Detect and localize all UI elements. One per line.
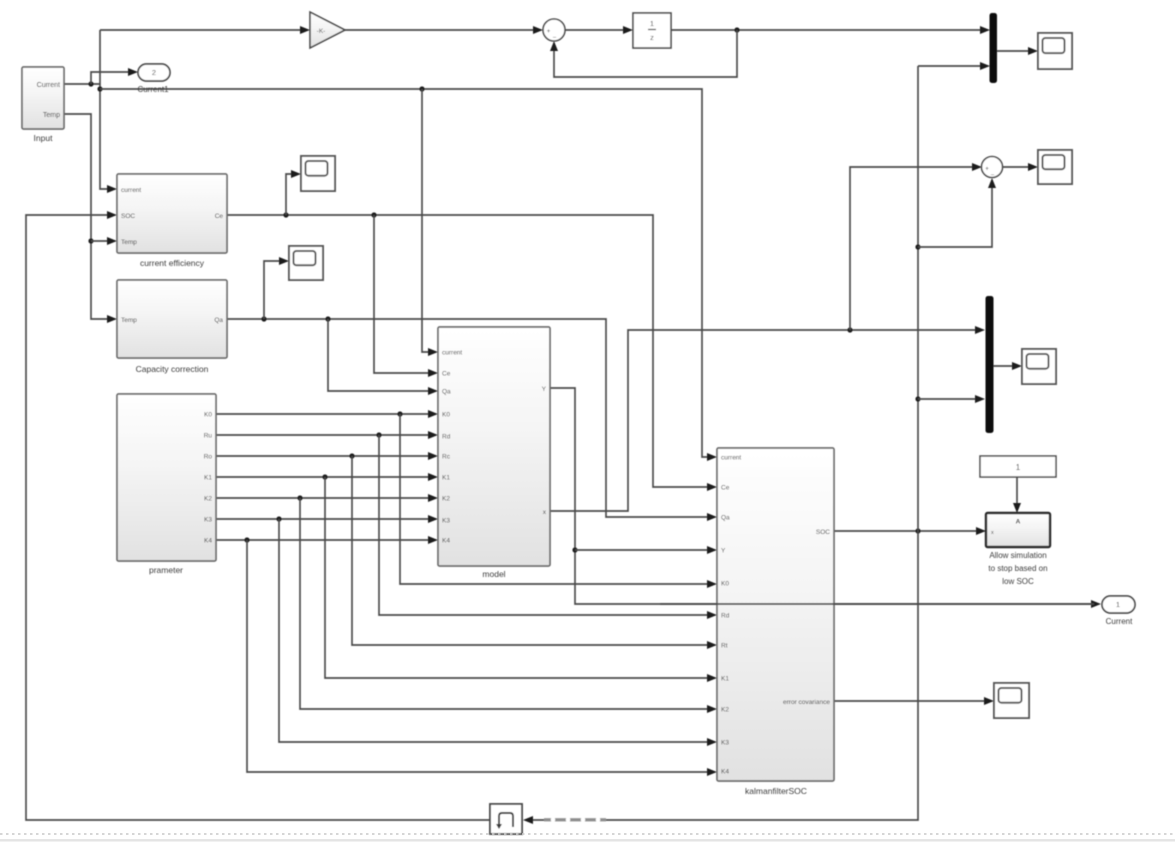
svg-text:Qa: Qa [721, 515, 730, 522]
node: junction Current1 / model current feed [419, 86, 424, 91]
svg-text:Rc: Rc [442, 454, 451, 461]
wire: parameter Ru to model input [216, 434, 430, 436]
wire: memory feedback out to left edge and up to SOC input [26, 215, 490, 820]
svg-text:+: + [547, 28, 551, 35]
wire: Input Temp output down left side [64, 114, 109, 319]
svg-text:K0: K0 [204, 412, 212, 419]
wire: top run to gain -K- [100, 29, 303, 31]
svg-text:K1: K1 [204, 475, 212, 482]
svg-text:Ru: Ru [204, 433, 213, 440]
wire: parameter K3 to model input [216, 518, 430, 520]
wire: parameter K4 to model input [216, 539, 430, 541]
svg-text:Allow simulation: Allow simulation [989, 551, 1046, 560]
wire: SOC to Mux2 input 2 [918, 398, 978, 400]
wire: into current-efficiency current input [107, 185, 117, 193]
wire: kalman error covariance output to Scope [834, 700, 987, 702]
svg-text:current: current [121, 187, 141, 194]
node: SOC trunk junction [915, 528, 920, 533]
bottom dotted strip [0, 833, 1175, 835]
wire: K1 down-route to kalman input [325, 477, 709, 678]
wire: Current line crossing over kalman block [660, 603, 1094, 605]
gain -K- triangle [310, 12, 345, 48]
svg-text:K0: K0 [721, 581, 729, 588]
svg-text:+: + [985, 166, 989, 173]
svg-text:SOC: SOC [816, 529, 830, 536]
svg-text:Qa: Qa [442, 389, 451, 396]
svg-text:to stop based on: to stop based on [988, 564, 1047, 573]
wire: Qa output run to kalman Qa [227, 319, 709, 517]
outport oval 2 Current1 [138, 64, 170, 81]
wire: Qa branch up to Scope [264, 261, 281, 319]
svg-text:1: 1 [650, 19, 654, 28]
block: Capacity correction subsystem [117, 280, 227, 358]
svg-text:Qa: Qa [214, 317, 223, 324]
svg-text:prameter: prameter [149, 565, 183, 575]
wire: Input Current output to junction [64, 83, 100, 85]
node: Ro branch junction [349, 453, 354, 458]
wire: SOC vertical trunk [533, 66, 918, 820]
wire: parameter Ro to model input [216, 455, 430, 457]
svg-text:kalmanfilterSOC: kalmanfilterSOC [745, 786, 807, 796]
wire: feedback loop to Sum1 bottom [554, 30, 737, 77]
svg-text:low SOC: low SOC [1002, 577, 1034, 586]
svg-text:2: 2 [152, 68, 156, 77]
wire: K4 down-route to kalman input [247, 540, 709, 772]
wire: parameter K0 to model input [216, 413, 430, 415]
svg-text:Temp: Temp [121, 239, 137, 246]
scope Scope2 [1038, 150, 1072, 184]
svg-text:K3: K3 [442, 518, 450, 525]
wire: unit delay output to Mux1 input 1 [671, 29, 983, 31]
wire: K0 down-route to kalman input [400, 414, 709, 584]
svg-text:model: model [482, 569, 505, 579]
sum Sum2 circle [982, 157, 1003, 178]
block: Input subsystem [22, 67, 64, 129]
node: Qa model branch [325, 316, 330, 321]
wire: Ce branch up to Scope [286, 174, 293, 215]
svg-text:Ce: Ce [442, 371, 451, 378]
scope Scope-Ce [301, 156, 335, 191]
svg-text:Rd: Rd [442, 434, 451, 441]
svg-text:-K-: -K- [317, 28, 326, 35]
wire: white watermark dots on feedback wire [544, 818, 606, 821]
wire: Temp into Capacity correction input [107, 315, 117, 323]
wire: Ce branch down to model Ce input [374, 215, 430, 373]
scope Scope1 [1038, 33, 1072, 69]
node: Temp junction [88, 238, 93, 243]
wire: parameter K2 to model input [216, 497, 430, 499]
node: Ru branch junction [376, 432, 381, 437]
svg-text:K2: K2 [721, 707, 729, 714]
node: K2 branch junction [297, 495, 302, 500]
svg-text:error covariance: error covariance [783, 699, 830, 706]
svg-text:Y: Y [542, 386, 547, 393]
wire: branch up to outport Current1 oval [91, 72, 130, 84]
wire: Qa branch down to model Qa input [328, 319, 430, 391]
wire: Ru down-route to kalman input [379, 435, 709, 615]
node: Ce scope branch [283, 212, 288, 217]
svg-text:SOC: SOC [121, 213, 135, 220]
svg-text:Rd: Rd [721, 613, 730, 620]
node: K0 branch junction [397, 411, 402, 416]
wire: constant 1 down to Allow-simulation block [1016, 476, 1018, 506]
sum Sum1 circle [543, 19, 565, 41]
node: SOC to Mux2 tap [915, 396, 920, 401]
svg-text:−: − [553, 35, 557, 42]
svg-text:Temp: Temp [43, 112, 60, 119]
svg-text:K3: K3 [721, 740, 729, 747]
wire: Ro down-route to kalman input [352, 456, 709, 645]
node: K3 branch junction [276, 516, 281, 521]
svg-text:K1: K1 [721, 676, 729, 683]
block: current efficiency subsystem [117, 174, 227, 253]
node: Y junction to kalman [572, 547, 577, 552]
wire: SOC to Sum2 bottom input [918, 185, 992, 247]
svg-text:1: 1 [1016, 463, 1021, 472]
svg-text:x: x [991, 530, 994, 536]
svg-text:current efficiency: current efficiency [140, 258, 205, 268]
mux Mux2 bar [986, 296, 994, 433]
wire: Y to kalman Y input [575, 549, 709, 551]
block: model subsystem [438, 327, 550, 566]
wire: Mux1 output to Scope [996, 50, 1031, 52]
svg-text:−: − [991, 172, 995, 179]
wire: model x output up and right to Mux2 input 1 [550, 330, 978, 511]
wire: parameter K1 to model input [216, 476, 430, 478]
node: x branch to Sum2 [847, 327, 852, 332]
wire: Ce output run [227, 215, 709, 487]
svg-text:z: z [650, 33, 654, 42]
svg-text:K4: K4 [442, 538, 450, 545]
unit delay 1/z block [633, 13, 671, 48]
scope Scope4 error covariance [994, 683, 1029, 718]
wire: K3 down-route to kalman input [279, 519, 709, 742]
svg-text:Current1: Current1 [137, 85, 169, 94]
svg-text:Current: Current [37, 82, 60, 89]
wire: x branch up to Sum2 left input [850, 167, 975, 330]
svg-text:K0: K0 [442, 412, 450, 419]
svg-text:A: A [1016, 519, 1021, 526]
svg-text:Capacity correction: Capacity correction [136, 364, 209, 374]
svg-text:Ce: Ce [215, 213, 224, 220]
node: junction at x=100 on Current1 line [97, 86, 102, 91]
scope Scope-Qa [289, 246, 323, 280]
wire: kalman SOC output to Allow-simulation block [834, 530, 979, 532]
node: K4 branch junction [244, 537, 249, 542]
svg-text:K2: K2 [204, 496, 212, 503]
svg-text:current: current [442, 350, 462, 357]
svg-text:K1: K1 [442, 475, 450, 482]
node: K1 branch junction [322, 474, 327, 479]
svg-text:Temp: Temp [121, 317, 137, 324]
wire: K2 down-route to kalman input [300, 498, 709, 709]
wire: long Current1 line to kalman current input [100, 89, 709, 457]
block: Allow simulation stop subsystem [986, 513, 1050, 547]
node: Ce model branch [371, 212, 376, 217]
block: memory feedback block [490, 804, 522, 834]
constant block 1 [980, 456, 1056, 477]
scope Scope3 [1022, 349, 1056, 384]
wire: down to model current input [422, 89, 430, 352]
node: SOC to Sum2 tap [915, 244, 920, 249]
svg-text:Rt: Rt [721, 643, 728, 650]
svg-text:current: current [721, 455, 741, 462]
wire: gain output to Sum1 [344, 29, 536, 31]
node: Current branch junction [88, 81, 93, 86]
svg-text:K4: K4 [721, 769, 729, 776]
svg-text:Ro: Ro [204, 454, 213, 461]
wire: Sum2 output to Scope [1002, 166, 1031, 168]
svg-text:Ce: Ce [721, 485, 730, 492]
node: Qa scope branch [261, 316, 266, 321]
wire: Sum1 to unit delay 1/z [565, 29, 626, 31]
svg-text:Y: Y [721, 548, 726, 555]
svg-text:K2: K2 [442, 496, 450, 503]
svg-text:1: 1 [1116, 600, 1120, 609]
wire: model Y output down [550, 388, 1094, 604]
outport oval 1 Current [1102, 596, 1135, 613]
svg-text:Input: Input [34, 133, 54, 143]
node: feedback tap [734, 27, 739, 32]
svg-text:K3: K3 [204, 517, 212, 524]
mux Mux1 bar [990, 13, 998, 83]
svg-text:K4: K4 [204, 538, 212, 545]
svg-text:Current: Current [1106, 617, 1133, 626]
wire: vertical current trunk x=100 (gain feed down to current-efficiency input) [100, 30, 109, 189]
wire: Temp to current-efficiency Temp input [91, 240, 109, 242]
block: parameter subsystem [117, 394, 216, 561]
wire: Mux2 output to Scope [993, 365, 1015, 367]
wire: SOC trunk top to Mux1 input 2 [918, 65, 983, 67]
block: kalmanfilterSOC subsystem [717, 448, 834, 781]
